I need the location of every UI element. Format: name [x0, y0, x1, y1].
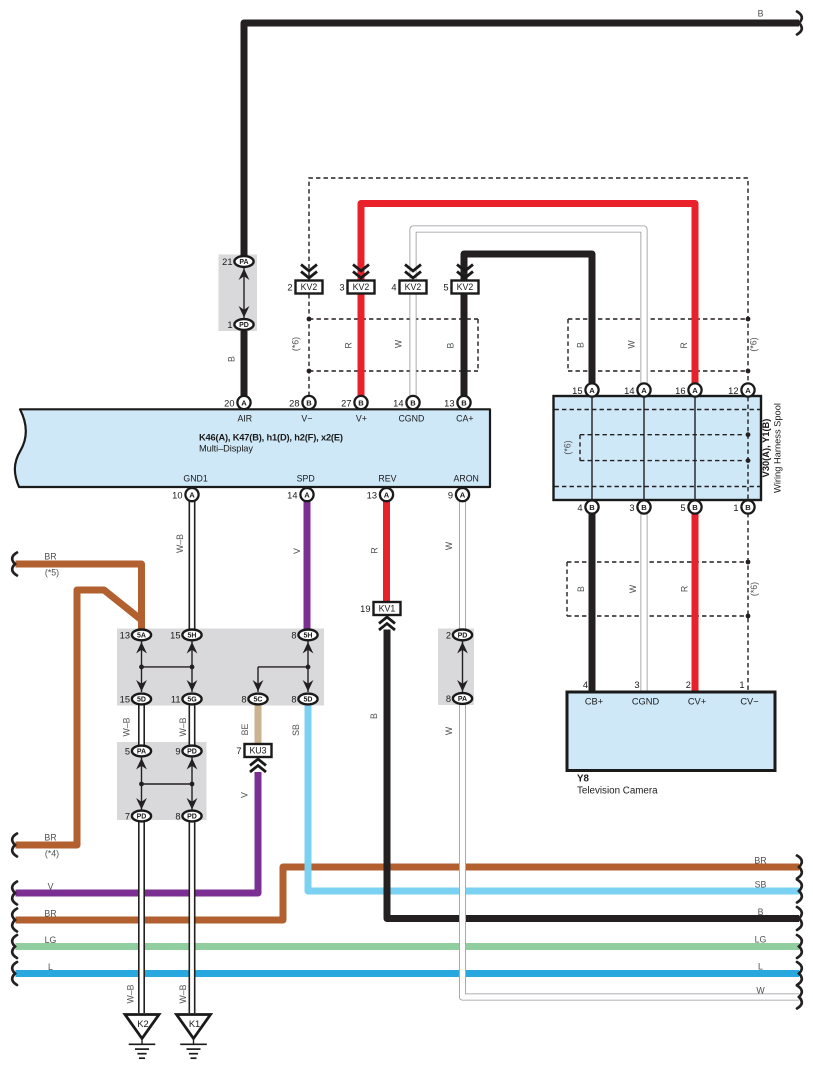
- svg-text:B: B: [758, 9, 764, 19]
- svg-text:W: W: [394, 339, 404, 348]
- svg-text:B: B: [589, 503, 595, 512]
- svg-text:A: A: [460, 491, 466, 500]
- svg-text:W–B: W–B: [126, 984, 136, 1003]
- svg-text:CV+: CV+: [688, 697, 706, 707]
- svg-text:W: W: [444, 541, 454, 550]
- svg-text:LG: LG: [45, 935, 57, 945]
- svg-text:B: B: [306, 398, 312, 407]
- svg-text:11: 11: [171, 694, 181, 704]
- svg-text:B: B: [227, 356, 237, 362]
- svg-text:28: 28: [289, 399, 299, 409]
- svg-text:K2: K2: [137, 1019, 148, 1029]
- svg-text:KV2: KV2: [301, 282, 318, 292]
- svg-text:27: 27: [341, 399, 351, 409]
- svg-text:A: A: [692, 386, 698, 395]
- svg-text:B: B: [576, 342, 586, 348]
- svg-text:PA: PA: [239, 259, 248, 266]
- svg-text:4: 4: [391, 282, 396, 292]
- svg-text:CA+: CA+: [456, 414, 473, 424]
- svg-text:8: 8: [291, 694, 296, 704]
- svg-text:5: 5: [680, 503, 685, 513]
- svg-text:14: 14: [624, 386, 634, 396]
- svg-text:Television Camera: Television Camera: [577, 786, 658, 797]
- svg-text:R: R: [344, 342, 354, 348]
- svg-text:4: 4: [577, 503, 582, 513]
- svg-text:8: 8: [446, 694, 451, 704]
- svg-text:KU3: KU3: [249, 746, 266, 756]
- svg-text:CB+: CB+: [585, 697, 603, 707]
- svg-text:5: 5: [125, 746, 130, 756]
- svg-text:K46(A), K47(B), h1(D), h2(F),: K46(A), K47(B), h1(D), h2(F), x2(E): [199, 433, 343, 443]
- svg-text:PD: PD: [187, 814, 197, 821]
- svg-text:CGND: CGND: [398, 414, 424, 424]
- svg-text:2: 2: [686, 680, 691, 690]
- svg-text:BR: BR: [44, 552, 56, 562]
- svg-text:13: 13: [444, 399, 454, 409]
- svg-text:15: 15: [572, 386, 582, 396]
- svg-text:4: 4: [583, 680, 588, 690]
- svg-text:5C: 5C: [254, 697, 263, 704]
- svg-text:5D: 5D: [304, 697, 313, 704]
- svg-text:3: 3: [634, 680, 639, 690]
- svg-text:V30(A), Y1(B): V30(A), Y1(B): [761, 419, 771, 478]
- svg-text:A: A: [745, 386, 751, 395]
- svg-text:A: A: [589, 386, 595, 395]
- svg-text:W–B: W–B: [178, 984, 188, 1003]
- svg-text:2: 2: [446, 630, 451, 640]
- svg-text:REV: REV: [378, 474, 396, 484]
- svg-text:PD: PD: [187, 749, 197, 756]
- svg-text:A: A: [384, 491, 390, 500]
- svg-text:B: B: [358, 398, 364, 407]
- svg-text:19: 19: [360, 604, 370, 614]
- svg-text:B: B: [758, 907, 764, 917]
- svg-text:V−: V−: [301, 414, 312, 424]
- svg-text:BR: BR: [44, 833, 56, 843]
- svg-text:L: L: [758, 962, 763, 972]
- svg-text:14: 14: [287, 491, 297, 501]
- svg-text:B: B: [369, 713, 379, 719]
- svg-text:5D: 5D: [137, 697, 146, 704]
- svg-text:R: R: [679, 342, 689, 348]
- svg-text:PD: PD: [239, 322, 249, 329]
- svg-text:KV2: KV2: [457, 282, 474, 292]
- svg-text:A: A: [189, 491, 195, 500]
- svg-text:(*6): (*6): [749, 337, 759, 351]
- svg-text:GND1: GND1: [183, 474, 208, 484]
- svg-text:K1: K1: [189, 1019, 200, 1029]
- svg-text:BR: BR: [754, 856, 766, 866]
- svg-text:ARON: ARON: [453, 474, 478, 484]
- svg-text:Y8: Y8: [577, 774, 590, 785]
- svg-text:CGND: CGND: [632, 697, 660, 707]
- svg-text:20: 20: [224, 399, 234, 409]
- svg-text:(*4): (*4): [45, 849, 59, 859]
- svg-text:2: 2: [287, 282, 292, 292]
- svg-text:KV2: KV2: [353, 282, 370, 292]
- svg-text:PA: PA: [137, 749, 146, 756]
- svg-text:(*6): (*6): [749, 582, 759, 596]
- svg-text:15: 15: [170, 630, 180, 640]
- svg-text:(*6): (*6): [291, 337, 301, 351]
- svg-text:B: B: [641, 503, 647, 512]
- svg-text:BE: BE: [240, 724, 250, 736]
- svg-text:3: 3: [339, 282, 344, 292]
- svg-text:8: 8: [241, 694, 246, 704]
- svg-text:10: 10: [172, 491, 182, 501]
- svg-text:(*5): (*5): [45, 568, 59, 578]
- svg-text:R: R: [370, 547, 380, 553]
- svg-text:SB: SB: [291, 724, 301, 736]
- svg-text:1: 1: [739, 680, 744, 690]
- svg-text:1: 1: [733, 503, 738, 513]
- svg-text:A: A: [304, 491, 310, 500]
- svg-text:PD: PD: [458, 633, 468, 640]
- svg-text:V: V: [240, 792, 250, 798]
- svg-text:14: 14: [393, 399, 403, 409]
- svg-text:8: 8: [291, 630, 296, 640]
- svg-text:B: B: [461, 398, 467, 407]
- svg-text:V: V: [292, 548, 302, 554]
- svg-text:B: B: [410, 398, 416, 407]
- svg-text:1: 1: [227, 320, 232, 330]
- svg-text:R: R: [680, 586, 690, 592]
- svg-text:5G: 5G: [187, 697, 197, 704]
- svg-text:7: 7: [236, 746, 241, 756]
- svg-text:Wiring Harness Spool: Wiring Harness Spool: [773, 403, 783, 493]
- svg-text:W: W: [756, 986, 765, 996]
- svg-text:5A: 5A: [137, 633, 146, 640]
- svg-text:W–B: W–B: [178, 717, 188, 736]
- svg-text:A: A: [641, 386, 647, 395]
- svg-text:15: 15: [120, 694, 130, 704]
- svg-text:12: 12: [728, 386, 738, 396]
- svg-text:5H: 5H: [188, 633, 197, 640]
- svg-text:L: L: [48, 962, 53, 972]
- svg-text:W–B: W–B: [175, 534, 185, 553]
- svg-text:5H: 5H: [304, 633, 313, 640]
- svg-text:3: 3: [629, 503, 634, 513]
- svg-text:13: 13: [367, 491, 377, 501]
- svg-text:13: 13: [120, 630, 130, 640]
- svg-text:B: B: [576, 586, 586, 592]
- svg-text:W: W: [627, 340, 637, 349]
- svg-text:16: 16: [675, 386, 685, 396]
- svg-text:A: A: [241, 398, 247, 407]
- svg-text:Multi–Display: Multi–Display: [199, 444, 253, 454]
- svg-text:KV1: KV1: [379, 604, 396, 614]
- svg-text:CV−: CV−: [740, 697, 758, 707]
- svg-text:PD: PD: [137, 814, 147, 821]
- svg-text:W–B: W–B: [122, 717, 132, 736]
- svg-text:5: 5: [443, 282, 448, 292]
- svg-text:SB: SB: [755, 880, 767, 890]
- svg-text:B: B: [745, 503, 751, 512]
- svg-text:V+: V+: [356, 414, 367, 424]
- svg-text:BR: BR: [44, 909, 56, 919]
- svg-text:W: W: [628, 584, 638, 593]
- svg-text:8: 8: [175, 811, 180, 821]
- svg-text:B: B: [446, 342, 456, 348]
- svg-text:PA: PA: [458, 696, 467, 703]
- svg-text:LG: LG: [755, 935, 767, 945]
- svg-text:9: 9: [175, 746, 180, 756]
- svg-text:9: 9: [448, 491, 453, 501]
- svg-text:V: V: [48, 882, 54, 892]
- svg-text:(*6): (*6): [563, 440, 573, 454]
- svg-text:KV2: KV2: [405, 282, 422, 292]
- svg-text:B: B: [692, 503, 698, 512]
- svg-text:AIR: AIR: [237, 414, 252, 424]
- svg-text:W: W: [444, 726, 454, 735]
- svg-text:21: 21: [222, 257, 232, 267]
- svg-text:7: 7: [125, 811, 130, 821]
- svg-text:SPD: SPD: [297, 474, 315, 484]
